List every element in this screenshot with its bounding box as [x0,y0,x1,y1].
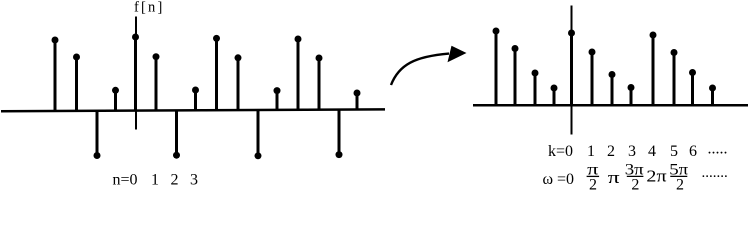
stem n=-2 (negative) [94,110,101,159]
stem n=4 [213,35,220,110]
svg-text:k=0: k=0 [548,143,573,160]
stem k=0 [568,30,575,106]
stem k=5 [671,49,678,105]
svg-text:ω =0: ω =0 [543,171,575,188]
label omega 3pi/2 fraction [625,160,644,194]
stem n=-4 [52,37,59,111]
stem k=-4 [493,28,500,106]
label omega pi/2 fraction [587,161,600,193]
stem n=7 [274,87,281,110]
svg-text:2π: 2π [646,167,667,186]
svg-text:n=0: n=0 [113,172,138,189]
svg-text:6: 6 [689,143,697,160]
stem k=2 [609,71,616,105]
svg-text:3: 3 [190,172,198,189]
svg-text:.......: ....... [702,165,728,181]
stem n=-3 [73,54,80,111]
stem k=7 [709,85,716,106]
stem k=-2 [532,70,539,106]
svg-text:2: 2 [607,143,615,160]
left plot vertical axis (f axis) [135,17,137,130]
stem n=6 (negative) [255,110,262,159]
stem n=8 [295,36,302,111]
svg-text:.....: ..... [708,140,728,157]
transform arrow (curved) [391,46,467,85]
stem k=4 [650,32,657,106]
stem n=2 (negative) [173,110,180,159]
stem n=3 [192,87,199,111]
svg-text:5: 5 [670,143,678,160]
stem k=-1 [551,85,558,106]
svg-text:2: 2 [676,176,684,192]
left plot horizontal axis (n axis) [1,109,385,111]
svg-text:1: 1 [587,143,595,160]
stem k=6 [689,69,696,105]
stem k=-3 [512,45,519,105]
svg-text:1: 1 [151,172,159,189]
stem n=11 [354,90,361,111]
right plot horizontal axis (k axis) [473,104,748,107]
stem k=3 [628,84,635,105]
right plot vertical axis [571,6,573,135]
stem k=1 [589,49,596,106]
stem n=1 [153,53,160,110]
stem n=-1 [112,87,119,110]
stem n=0 [132,34,139,111]
svg-text:f[n]: f[n] [134,0,165,16]
svg-text:3: 3 [628,143,636,160]
svg-text:2: 2 [589,176,597,192]
svg-text:2: 2 [631,176,639,192]
stem n=5 [235,54,242,110]
svg-text:2: 2 [171,172,179,189]
svg-text:4: 4 [648,143,656,160]
stem n=9 [316,55,323,111]
label omega 5pi/2 fraction [669,160,688,194]
stem n=10 (negative) [336,110,343,158]
svg-text:π: π [608,169,621,187]
